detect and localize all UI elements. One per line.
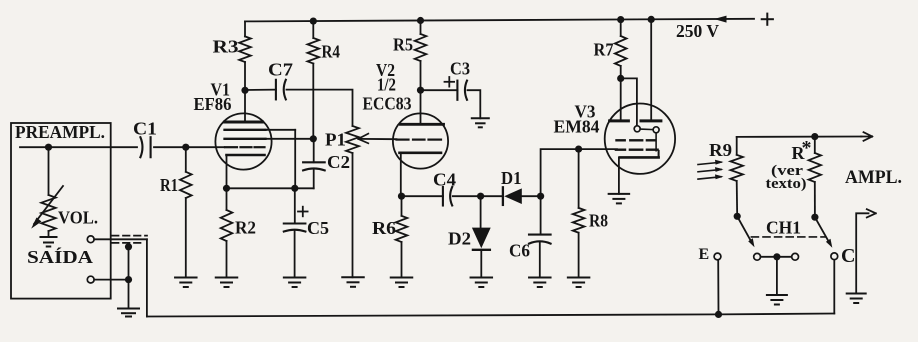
pin V1 grid g2 row and wire to R4 xyxy=(225,138,314,140)
svg-text:AMPL.: AMPL. xyxy=(845,167,902,188)
wire Rstar bottom lead xyxy=(814,182,816,217)
label P1 xyxy=(325,129,346,149)
svg-text:C5: C5 xyxy=(307,218,329,238)
wire R3 top lead xyxy=(244,21,246,36)
label CH1 xyxy=(766,218,801,238)
node switch right contact C xyxy=(831,253,838,260)
junction D2 node xyxy=(477,193,484,200)
wire V3 anode lead xyxy=(650,19,652,120)
wire R7 top lead xyxy=(620,20,622,36)
wire V1 cathode lead xyxy=(226,155,228,188)
potentiometer VOL xyxy=(31,186,63,237)
ground C6 xyxy=(529,278,551,288)
resistor R1 xyxy=(180,172,192,198)
ground C3 xyxy=(472,118,489,127)
svg-text:R2: R2 xyxy=(235,218,256,238)
wire R3 to anode xyxy=(244,62,246,90)
resistor R8 xyxy=(573,208,585,233)
wire D1 to C6 node xyxy=(522,195,541,197)
node terminal E xyxy=(714,253,721,260)
wire C1 to grid V1 xyxy=(154,146,224,148)
label ECC83 xyxy=(363,94,412,114)
resistor R2 xyxy=(221,210,233,241)
wire cable down to bottom bus xyxy=(146,239,148,316)
wire Rstar lead top xyxy=(814,137,816,153)
wire V1 anode lead xyxy=(244,90,246,122)
svg-text:EM84: EM84 xyxy=(554,117,600,137)
label R8 xyxy=(589,211,608,231)
label PREAMPL xyxy=(15,122,105,142)
label SAIDA xyxy=(27,246,93,267)
junction V2 cathode node xyxy=(398,193,405,200)
label 1/2 xyxy=(377,75,396,95)
junction rail R5 xyxy=(417,17,424,24)
wire SAIDA upper to cable xyxy=(94,238,147,240)
light arrows into R9 xyxy=(698,160,724,179)
resistor R7 xyxy=(615,36,627,66)
wire screen jog to deflection xyxy=(621,78,637,125)
wire C contact to bus xyxy=(833,260,835,314)
wire C4 to D1 xyxy=(453,195,503,197)
resistor R9 xyxy=(731,155,743,181)
arrow supply feed xyxy=(714,16,727,23)
ground shield xyxy=(118,309,139,317)
wire R6 bottom lead xyxy=(401,242,403,278)
label R2 xyxy=(235,218,256,238)
label E xyxy=(699,246,710,263)
wire between contacts xyxy=(761,256,792,258)
svg-text:PREAMPL.: PREAMPL. xyxy=(15,122,105,142)
wire contact ground lead xyxy=(776,257,778,295)
junction rail R7 xyxy=(617,16,624,23)
junction shield tap xyxy=(125,243,132,250)
label V2 xyxy=(376,60,395,80)
svg-text:EF86: EF86 xyxy=(194,94,232,114)
svg-text:1/2: 1/2 xyxy=(377,75,396,95)
junction lower terminal node xyxy=(125,276,132,283)
wire R8 bottom lead xyxy=(578,233,580,278)
plus C3 polarity xyxy=(445,77,455,87)
node switch left contact xyxy=(754,253,761,260)
label C2 xyxy=(327,152,350,172)
svg-text:C1: C1 xyxy=(133,119,157,139)
wire R5 top lead xyxy=(420,21,422,35)
diode D2 xyxy=(472,228,491,250)
wire R2 bottom lead xyxy=(226,241,228,278)
ground AMPL return xyxy=(847,294,866,304)
wire C3 to ground xyxy=(468,90,481,118)
wire C5 top lead xyxy=(294,188,296,223)
wire C6 top lead xyxy=(540,196,542,234)
junction R7 screen node xyxy=(617,75,624,82)
label Rstar xyxy=(792,137,812,163)
pin V3 cathode bar xyxy=(620,151,659,158)
svg-text:250 V: 250 V xyxy=(676,21,719,41)
svg-text:R6: R6 xyxy=(372,218,396,238)
node SAIDA upper terminal xyxy=(87,236,94,243)
pin V2 cathode bar xyxy=(400,152,442,155)
junction E bus xyxy=(715,311,722,318)
ground P1 xyxy=(342,277,364,287)
wire R4 top lead xyxy=(312,21,314,38)
wire C6 bottom lead xyxy=(539,243,541,278)
label R5 xyxy=(393,35,413,55)
wire R1 top lead xyxy=(185,147,187,172)
junction input node xyxy=(45,144,52,151)
wire R1 bottom lead xyxy=(185,198,187,278)
wire E to bus xyxy=(717,260,719,314)
label C3 xyxy=(450,59,470,79)
pin V2 plate bar xyxy=(401,123,444,126)
junction contact ground tap xyxy=(773,253,780,260)
junction rail V3 anode xyxy=(648,16,655,23)
capacitor C2 xyxy=(303,162,325,170)
label R3 xyxy=(213,37,239,57)
wire shield ground lead xyxy=(128,280,130,309)
wire P1 bottom lead xyxy=(352,153,354,277)
wire R4 bottom lead xyxy=(312,64,314,139)
ground R1 xyxy=(175,278,197,288)
junction switch left pole xyxy=(734,213,741,220)
switch CH1 right blade xyxy=(815,217,832,248)
label R6 xyxy=(372,218,396,238)
pin V3 deflection electrode circles xyxy=(634,126,659,133)
svg-text:R3: R3 xyxy=(213,37,239,57)
junction rail R4 xyxy=(310,18,317,25)
wire C2 bottom lead xyxy=(313,169,315,188)
resistor R4 xyxy=(308,38,320,64)
wire g3 down to cathode net xyxy=(294,130,296,189)
label VOL. xyxy=(58,208,98,228)
wire D2 top lead xyxy=(480,196,482,227)
wire P1 wiper to V2 grid xyxy=(358,134,396,144)
svg-text:C7: C7 xyxy=(268,60,293,80)
svg-text:D2: D2 xyxy=(448,229,471,249)
tube V3 envelope xyxy=(605,104,675,174)
svg-text:R9: R9 xyxy=(709,140,732,160)
svg-text:C: C xyxy=(841,245,855,267)
label 250 V xyxy=(676,21,719,41)
resistor R6 xyxy=(396,216,408,242)
ground CH1 xyxy=(767,295,787,305)
pin V3 grid dashes row1 xyxy=(617,139,656,141)
wire screen node to target bar xyxy=(620,78,622,120)
label D2 xyxy=(448,229,471,249)
label C7 xyxy=(268,60,293,80)
svg-text:R5: R5 xyxy=(393,35,413,55)
ground R8 xyxy=(568,278,590,288)
svg-text:P1: P1 xyxy=(325,129,346,149)
svg-text:D1: D1 xyxy=(501,168,522,188)
wire shield to lower terminal xyxy=(128,244,130,280)
junction cathode node xyxy=(223,185,230,192)
plus supply polarity xyxy=(762,14,773,25)
node switch mid contact xyxy=(792,253,799,260)
pin V3 target bar left xyxy=(610,119,629,122)
junction V2 anode node xyxy=(417,87,424,94)
pin V1 control grid g1 dashes xyxy=(225,146,265,148)
svg-text:R1: R1 xyxy=(160,175,178,195)
label EF86 xyxy=(194,94,232,114)
wire C5 bottom lead xyxy=(294,231,296,278)
label C1 xyxy=(133,119,157,139)
wire R7 bottom lead xyxy=(620,66,622,78)
svg-text:VOL.: VOL. xyxy=(58,208,98,228)
wire CH1 coupling dashed xyxy=(751,236,825,238)
arrow output to AMPL xyxy=(861,132,872,141)
svg-text:CH1: CH1 xyxy=(766,218,801,238)
svg-text:SAÍDA: SAÍDA xyxy=(27,246,93,267)
tube V2 envelope xyxy=(393,113,448,168)
svg-text:R4: R4 xyxy=(322,42,341,62)
wire R9 top lead xyxy=(736,137,738,155)
junction V1 anode node xyxy=(241,87,248,94)
junction R1 top xyxy=(182,144,189,151)
wire R9 bottom lead xyxy=(736,181,739,216)
potentiometer P1 xyxy=(346,126,359,153)
diode D1 xyxy=(503,187,522,205)
junction C6 node xyxy=(537,193,544,200)
wire bottom bus xyxy=(147,314,834,317)
label AMPL. xyxy=(845,167,902,188)
label D1 xyxy=(501,168,522,188)
wire V2 anode lead xyxy=(420,90,422,124)
node SAIDA lower terminal xyxy=(87,276,94,283)
wire cathode net horizontal xyxy=(227,187,314,189)
pin V1 plate bar xyxy=(225,121,263,124)
wire output top xyxy=(737,136,862,138)
capacitor C1 xyxy=(140,137,150,157)
pin V3 grid dashes row2 xyxy=(616,148,658,150)
pin V1 grid g3 row and wire to cathode net xyxy=(225,129,296,131)
switch CH1 left blade xyxy=(737,216,754,247)
label C4 xyxy=(433,170,456,190)
wire R5 to anode xyxy=(420,61,422,90)
label V1 xyxy=(211,79,231,99)
svg-text:R8: R8 xyxy=(589,211,608,231)
capacitor C4 xyxy=(443,187,452,206)
label C6 xyxy=(509,241,530,261)
ground D2 xyxy=(471,278,493,288)
pin V3 target bar right xyxy=(641,119,661,122)
ground V3 cathode xyxy=(609,194,630,204)
wire input inside preamp xyxy=(20,146,137,148)
svg-text:C3: C3 xyxy=(450,59,470,79)
label EM84 xyxy=(554,117,600,137)
resistor R3 xyxy=(239,36,251,62)
wire cathode to C4 xyxy=(402,195,444,197)
capacitor C6 xyxy=(529,235,551,244)
resistor Rstar xyxy=(809,153,821,182)
pin V2 grid dashes xyxy=(397,139,442,141)
wire V2 cathode lead xyxy=(400,153,402,196)
label C5 xyxy=(307,218,329,238)
label R4 xyxy=(322,42,341,62)
junction R8 top xyxy=(575,146,582,153)
label R1 xyxy=(160,175,178,195)
wire V3 cathode lead xyxy=(618,157,620,194)
preamp unit box PREAMPL xyxy=(11,123,111,299)
junction Rstar top xyxy=(811,133,818,140)
svg-text:texto): texto) xyxy=(766,176,807,192)
wire C2 top lead xyxy=(313,139,315,163)
plus C5 polarity xyxy=(298,207,308,217)
tube V1 envelope xyxy=(215,113,271,169)
ground C5 xyxy=(284,278,306,288)
capacitor C3 xyxy=(457,81,467,100)
wire deflection right stem xyxy=(655,133,657,151)
svg-text:C6: C6 xyxy=(509,241,530,261)
pin V1 cathode bar xyxy=(227,154,265,157)
wire C3 branch xyxy=(421,89,458,91)
wire C6 node up to V3 grid xyxy=(541,149,617,196)
label R7 xyxy=(594,39,614,59)
wire R6 top lead xyxy=(401,196,403,216)
svg-text:*: * xyxy=(802,137,812,159)
wire AMPL return xyxy=(856,209,876,293)
svg-text:C2: C2 xyxy=(327,152,350,172)
svg-text:ECC83: ECC83 xyxy=(363,94,412,114)
wire SAIDA lower xyxy=(94,279,128,281)
label ver texto xyxy=(766,163,807,192)
junction switch right pole xyxy=(811,214,818,221)
label V3 xyxy=(575,102,596,122)
ground R6 xyxy=(391,278,413,288)
wire R8 top lead xyxy=(578,149,580,208)
wire R2 top lead xyxy=(226,188,228,210)
ground VOL xyxy=(41,237,57,247)
wire VOL top lead xyxy=(48,147,50,195)
label C xyxy=(841,245,855,267)
label R9 xyxy=(709,140,732,160)
junction screen node g2 xyxy=(310,135,317,142)
svg-text:E: E xyxy=(699,246,710,263)
wire shielded cable screen dashes xyxy=(112,236,147,243)
capacitor C5 xyxy=(284,224,306,232)
wire anode to C7 xyxy=(245,89,276,91)
wire D2 to ground xyxy=(480,250,482,278)
capacitor C7 xyxy=(276,80,286,100)
ground R2 xyxy=(216,278,238,288)
wire C7 to P1 top xyxy=(287,90,353,126)
wire 250V supply rail xyxy=(245,19,754,22)
svg-text:R7: R7 xyxy=(594,39,614,59)
junction C5 node xyxy=(291,185,298,192)
resistor R5 xyxy=(415,34,427,61)
